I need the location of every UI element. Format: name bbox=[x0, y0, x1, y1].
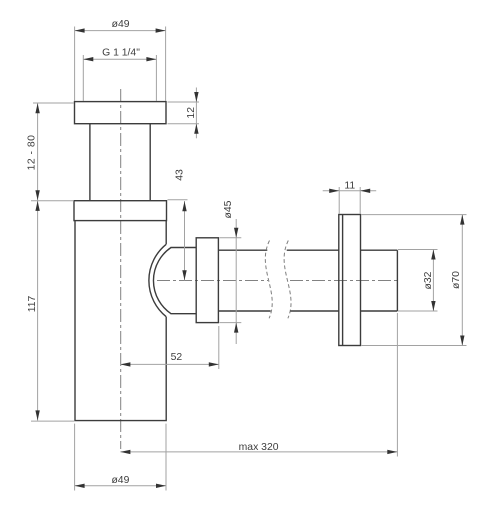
dimension 12 (top flange height) bbox=[168, 88, 200, 139]
dimension 52 bbox=[120, 326, 218, 369]
outlet pipe left section bbox=[218, 250, 270, 311]
dimension 12 - 80 (left) bbox=[33, 103, 74, 201]
dimension max 320 bbox=[120, 313, 397, 457]
outlet stub lines to nut bbox=[171, 248, 197, 314]
wall flange (rosette) bbox=[339, 215, 361, 346]
dimension G 1 1/4" bbox=[83, 55, 156, 101]
svg-text:ø49: ø49 bbox=[112, 19, 130, 30]
pipe break mark 2 bbox=[284, 241, 291, 319]
dimension ø49 bottom bbox=[75, 424, 166, 491]
inlet pipe bbox=[90, 124, 150, 201]
svg-text:12 - 80: 12 - 80 bbox=[26, 135, 37, 171]
dimension ø49 top bbox=[75, 27, 166, 102]
svg-text:ø70: ø70 bbox=[451, 271, 462, 289]
pipe break mark 1 bbox=[265, 241, 272, 319]
dimension ø32 bbox=[398, 250, 438, 312]
svg-text:117: 117 bbox=[27, 296, 38, 313]
dimension 43 bbox=[168, 200, 188, 281]
svg-text:52: 52 bbox=[171, 352, 183, 363]
svg-text:11: 11 bbox=[344, 180, 355, 191]
top flange nut bbox=[75, 102, 167, 124]
svg-text:max 320: max 320 bbox=[239, 442, 279, 453]
outlet nut bbox=[196, 238, 218, 323]
dimension 11 (flange thickness) bbox=[323, 187, 377, 214]
outlet bulge outer arc bbox=[149, 244, 166, 316]
svg-text:ø45: ø45 bbox=[223, 200, 234, 218]
body (cup) with outlet bulge cutout bbox=[75, 221, 166, 421]
outlet pipe right section bbox=[287, 250, 339, 311]
dimension ø45 bbox=[220, 219, 242, 344]
dimension 117 (left) bbox=[31, 201, 74, 421]
svg-text:ø32: ø32 bbox=[423, 271, 434, 289]
svg-text:G 1 1/4": G 1 1/4" bbox=[102, 48, 140, 59]
svg-text:43: 43 bbox=[174, 169, 185, 181]
svg-text:ø49: ø49 bbox=[111, 475, 129, 486]
svg-text:12: 12 bbox=[186, 107, 197, 119]
vertical centerline of body bbox=[120, 89, 122, 449]
outlet bulge inner arc bbox=[153, 248, 171, 314]
horizontal centerline of outlet pipe bbox=[157, 280, 268, 282]
dimension ø70 bbox=[362, 215, 467, 346]
body cap bbox=[74, 201, 167, 221]
wall pipe stub bbox=[361, 250, 398, 311]
